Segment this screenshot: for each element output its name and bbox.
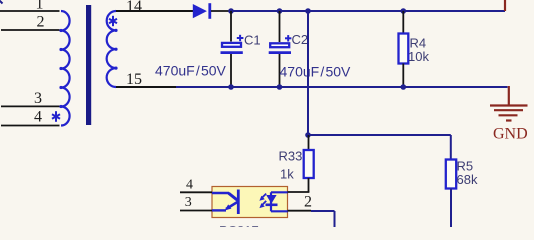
optocoupler designator (clipped at bottom) — [219, 223, 259, 238]
node: top rail junction at C1 — [228, 8, 234, 14]
node: bottom rail junction at R4 — [401, 84, 407, 90]
node: R33/R5 junction — [305, 132, 311, 138]
svg-text:R33: R33 — [279, 149, 303, 164]
wire stub to top edge (maroon) — [504, 0, 506, 11]
secondary pin 14 label — [126, 0, 142, 15]
diode D1 — [193, 3, 231, 19]
optocoupler light arrows — [259, 194, 266, 209]
optocoupler phototransistor — [212, 190, 238, 215]
resistor R5 — [446, 159, 478, 228]
optocoupler pin 2 — [288, 193, 313, 210]
top rail wire — [231, 10, 505, 12]
optocoupler pin 1 wire to R33 — [288, 191, 310, 193]
svg-text:1k: 1k — [280, 167, 294, 182]
transformer primary pin 1 — [0, 0, 60, 13]
svg-text:4: 4 — [34, 108, 42, 125]
ground — [490, 86, 528, 121]
wire: pin 2 to bottom edge — [311, 211, 335, 227]
svg-text:2: 2 — [304, 193, 312, 210]
node: bottom rail junction at C1 — [228, 84, 234, 90]
svg-text:PC817: PC817 — [219, 223, 259, 227]
node: top rail junction at feedback wire — [305, 8, 311, 14]
node: top rail junction at C2 — [277, 8, 283, 14]
svg-text:3: 3 — [34, 90, 42, 107]
svg-text:C2: C2 — [292, 32, 309, 47]
feedback wire from top rail down to R33 node — [307, 11, 309, 135]
svg-text:2: 2 — [37, 14, 45, 31]
resistor R33 — [279, 135, 314, 192]
svg-text:14: 14 — [126, 0, 142, 15]
transformer secondary winding — [107, 11, 116, 87]
svg-text:GND: GND — [493, 126, 528, 143]
wire: pin 14 to diode — [116, 10, 193, 12]
transformer primary pin 3 — [1, 90, 60, 107]
optocoupler body — [212, 187, 288, 218]
secondary polarity asterisk — [109, 16, 117, 26]
transformer primary winding — [61, 11, 70, 126]
capacitor C2 — [269, 11, 308, 87]
svg-text:470uF/50V: 470uF/50V — [280, 64, 352, 80]
node: bottom rail junction at C2 — [277, 84, 283, 90]
C1 value 470uF/50V — [155, 63, 227, 79]
svg-text:3: 3 — [185, 195, 192, 210]
primary winding junction dots — [59, 29, 62, 108]
secondary pin 15 label — [126, 71, 142, 88]
svg-text:10k: 10k — [408, 49, 429, 64]
optocoupler pin 3 — [180, 195, 212, 211]
secondary winding junction dots — [114, 29, 117, 70]
resistor R4 — [399, 11, 430, 87]
optocoupler LED — [266, 192, 289, 211]
svg-text:4: 4 — [186, 177, 193, 192]
svg-text:68k: 68k — [457, 172, 478, 187]
optocoupler pin 4 — [180, 177, 212, 192]
svg-text:15: 15 — [126, 71, 142, 88]
bottom rail wire (pin 15 net) — [116, 86, 508, 88]
svg-text:C1: C1 — [244, 33, 261, 48]
transformer primary pin 4 — [1, 108, 60, 125]
GND label — [493, 126, 528, 143]
transformer core — [86, 5, 91, 125]
svg-text:1: 1 — [36, 0, 44, 13]
primary polarity asterisk — [52, 111, 60, 122]
wire stub top-left corner — [0, 0, 3, 4]
svg-text:470uF/50V: 470uF/50V — [155, 63, 227, 79]
transformer primary pin 2 — [1, 14, 60, 31]
C2 value 470uF/50V — [280, 64, 352, 80]
capacitor C1 — [221, 11, 261, 87]
node: top rail junction at R4 — [401, 8, 407, 14]
wire: junction to R5 — [308, 135, 451, 160]
